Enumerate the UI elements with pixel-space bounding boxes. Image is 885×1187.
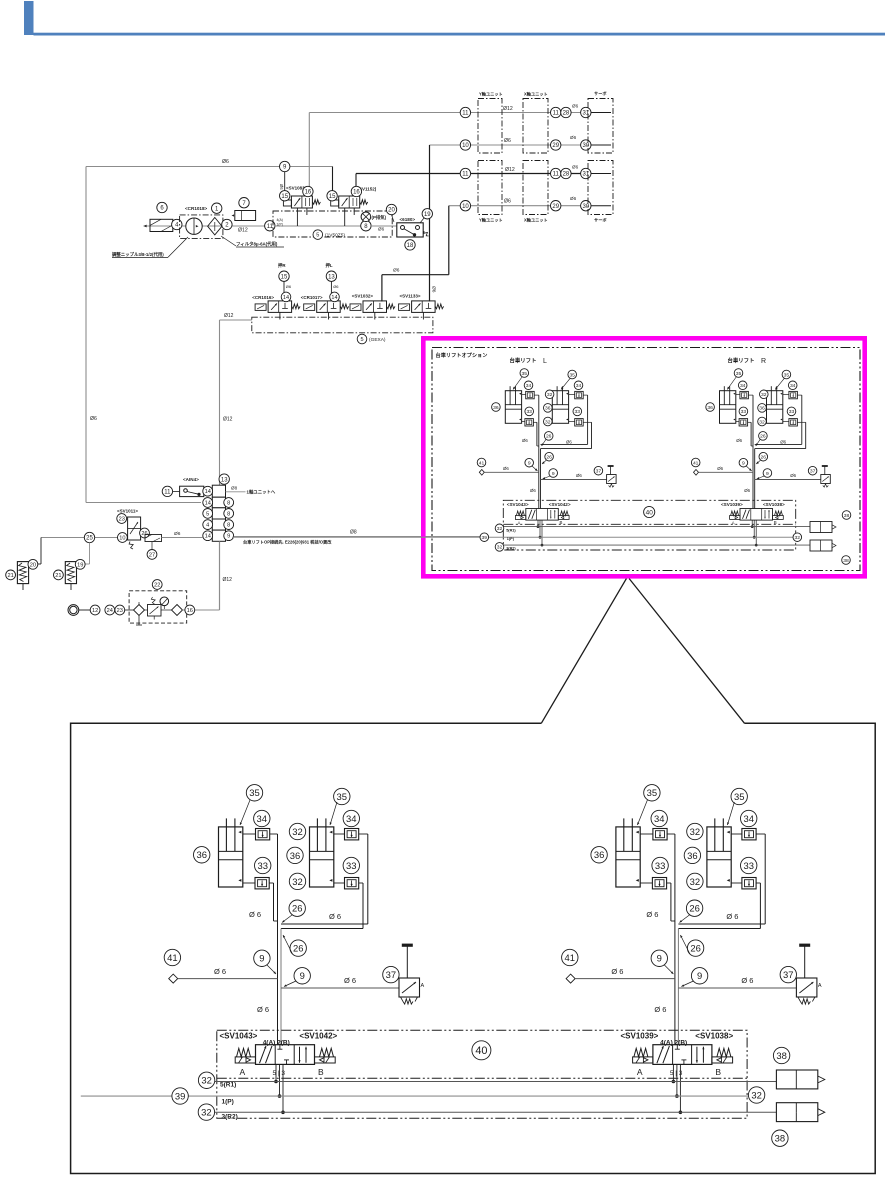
svg-text:5: 5 [360,337,363,343]
svg-text:Ø6: Ø6 [566,440,572,445]
balloon 41 detail [164,949,180,965]
balloon 27 [147,550,157,560]
balloon 32 right detail [748,1087,764,1103]
valve SV1083 [291,196,312,208]
svg-text:33: 33 [743,860,753,871]
wire supply to manifold [256,225,273,227]
wire vertical from line1 to SV1083 [308,113,310,197]
svg-text:32: 32 [497,545,503,551]
svg-text:32: 32 [201,1107,211,1118]
valve SV1083 stubs [296,208,298,226]
valve SV1032 [363,301,387,313]
svg-text:A: A [421,983,425,989]
balloon 15 SV1152 [327,191,337,201]
wire 41 to node detail [575,978,675,980]
svg-text:Ø6: Ø6 [717,466,723,471]
wire 41 to node [484,471,539,473]
wire cylA ports detail [640,833,653,835]
svg-text:13: 13 [221,477,228,483]
muffler SV1011 [145,535,162,542]
balloon 33 B [573,407,582,416]
svg-text:<AIN4>: <AIN4> [183,477,199,482]
balloon 26 junction detail [686,900,702,916]
svg-text:11: 11 [267,224,274,230]
svg-text:35: 35 [569,372,575,378]
svg-text:33: 33 [346,860,356,871]
svg-text:5: 5 [316,233,319,239]
balloon 11 line3 mid [551,168,561,178]
svg-text:41: 41 [693,460,699,466]
balloon 5 manifold [313,230,323,240]
svg-text:33: 33 [526,409,532,415]
filter diamond [208,218,222,235]
svg-text:Ø12: Ø12 [223,577,233,583]
balloon 6 [157,202,167,212]
balloon 14 CR1017 [330,292,340,302]
fitting small B bottom [789,419,798,426]
svg-text:35: 35 [522,371,528,377]
balloon 38 top small [842,511,851,520]
valve CR1016 [268,301,292,313]
svg-text:<SV1032>: <SV1032> [352,293,374,298]
balloon 38 top detail [773,1047,789,1063]
balloon 36 B [544,404,553,413]
svg-text:11: 11 [462,111,469,117]
wire cylA ports detail [243,833,256,835]
svg-text:35: 35 [647,787,657,798]
component 7 regulator [235,211,256,221]
balloon 21 springcyl1 [6,570,16,580]
svg-text:4(A) 2(B): 4(A) 2(B) [660,1040,687,1047]
balloon 20 springcyl1 [28,559,38,569]
svg-text:台車リフトOP接続先. E226(20)931 税技/O賃改: 台車リフトOP接続先. E226(20)931 税技/O賃改 [243,539,332,546]
valve stubs detail [672,1064,674,1081]
plug diamond 41 [694,470,699,476]
svg-text:Ø 6: Ø 6 [329,912,341,921]
valve stubs to GEXA rail [279,312,281,319]
balloon 37 [808,466,817,475]
svg-text:Ø6: Ø6 [530,488,536,493]
svg-text:34: 34 [790,383,796,389]
svg-text:31: 31 [582,111,589,117]
balloon 26 junction [759,432,768,441]
svg-text:Ø6: Ø6 [572,165,579,170]
balloon 36 B [758,404,767,413]
svg-text:34: 34 [526,383,532,389]
balloon 32 right small [793,533,802,542]
svg-text:15: 15 [329,194,336,200]
svg-text:35: 35 [337,791,347,802]
svg-text:26: 26 [293,943,303,954]
fitting B top [742,829,756,840]
balloon 29 line4 [551,201,561,211]
wire cyl B down [797,394,801,396]
rail R2 small [503,544,810,546]
detail box border [71,723,876,1173]
inner dash-dot frame [432,348,860,571]
svg-text:34: 34 [257,813,267,824]
svg-text:1(P): 1(P) [507,537,515,541]
balloon 9b detail [691,968,707,984]
balloon 30 line4 [581,201,591,211]
balloon 9b node [549,469,558,478]
balloon 1 [212,203,222,213]
svg-text:32: 32 [292,826,302,837]
svg-text:14: 14 [283,295,289,301]
svg-text:Ø6: Ø6 [431,286,437,293]
svg-text:38: 38 [775,1133,785,1144]
svg-text:8: 8 [227,511,230,517]
balloon 37 [594,466,603,475]
svg-text:26: 26 [292,903,302,914]
balloon 34 A detail [254,810,270,826]
balloon 13 stack [219,474,229,484]
balloon 22 prep [152,580,162,590]
cylinder A detail [219,827,243,887]
balloon 34 B [574,381,583,390]
muffler 6 [150,219,173,231]
manifold divider dash-dot small [503,523,795,525]
svg-text:39: 39 [175,1090,185,1101]
svg-text:Ø6: Ø6 [570,135,577,140]
svg-text:14: 14 [205,489,211,495]
balloon 36 A detail [591,847,607,863]
svg-text:B: B [318,1067,324,1077]
svg-text:29: 29 [552,143,559,149]
actuator detail 2 [776,1103,817,1122]
fitting A bottom [255,878,269,889]
plug diamond detail [566,974,575,983]
svg-text:34: 34 [743,813,753,824]
svg-text:26: 26 [761,455,767,461]
wires from cyl B [756,833,765,835]
dashed box servo upper [588,99,613,154]
balloon 16 SV1152 [351,186,361,196]
cylinder B detail [310,827,334,887]
wire phi12 tall vertical [219,320,221,610]
balloon 40 detail [472,1041,491,1060]
wire oshiR down [283,281,285,295]
svg-text:押L: 押L [326,262,333,269]
svg-text:34: 34 [654,813,664,824]
svg-text:35: 35 [736,371,742,377]
fitting B bottom [345,878,359,889]
balloon 32 Bb detail [687,873,703,889]
plug double circle [68,605,79,616]
svg-text:36: 36 [545,406,551,412]
balloon 2 [222,219,232,229]
wire supply phi6 top [86,166,333,168]
svg-text:30: 30 [582,204,589,210]
callout filter leader [221,236,236,246]
svg-text:Ø6: Ø6 [576,473,582,478]
wire vertical to SV1152 area [332,167,334,197]
svg-text:Ø6: Ø6 [780,440,786,445]
svg-text:5 | 3: 5 | 3 [273,1070,286,1077]
wire node to 37 detail [678,987,796,989]
wire main supply row [144,225,274,227]
balloon 40 [644,506,655,517]
balloon 9 detail [254,950,270,966]
balloon 15 oshiR [279,271,289,281]
svg-text:<6180>: <6180> [400,217,416,222]
balloon 28 line3 [561,168,571,178]
svg-text:26: 26 [690,943,700,954]
balloon 37 detail [383,966,399,982]
svg-text:35: 35 [734,791,744,802]
svg-text:23: 23 [119,517,125,523]
svg-text:32: 32 [761,392,767,398]
svg-text:9: 9 [697,970,702,981]
svg-text:19: 19 [77,562,83,568]
balloon 26 lower [545,452,554,461]
svg-text:9: 9 [657,953,662,964]
balloon 25 [84,532,94,542]
manifold dash-dot box detail [217,1030,747,1118]
cylinder B detail [707,827,731,887]
filter unit dash-dot box [180,215,223,239]
svg-text:14: 14 [331,295,337,301]
valve 53 detail [653,1045,712,1065]
svg-text:1(P): 1(P) [222,1099,234,1106]
balloon 10 line4 [460,201,470,211]
svg-text:38: 38 [844,513,850,519]
valve CR1017 [317,301,341,313]
svg-text:33: 33 [575,409,581,415]
svg-text:Ø8: Ø8 [350,530,357,536]
svg-text:<SV1038>: <SV1038> [763,502,785,507]
balloon 35 B detail [731,788,747,804]
fitting A top [653,829,667,840]
balloon 31 line1 [581,107,591,117]
svg-text:Ø 6: Ø 6 [741,976,753,985]
svg-text:Ø 6: Ø 6 [257,1005,269,1014]
balloon 21 springcyl2 [54,570,64,580]
svg-text:4: 4 [206,523,209,529]
fitting small B top [789,391,798,398]
spring cylinder 1 [17,562,28,584]
svg-text:Ø6: Ø6 [279,184,284,190]
balloon 10 SV1011 [118,533,128,543]
svg-text:4(A): 4(A) [277,218,283,222]
balloon 19 springcyl2 [75,559,85,569]
svg-text:32: 32 [795,535,801,541]
svg-text:A: A [637,1067,643,1077]
valve stubs small [537,520,539,527]
cylinder small A [505,391,521,424]
wires from cyl B [359,833,368,835]
svg-text:14: 14 [205,534,211,540]
balloon 9b node [763,469,772,478]
balloon 23 SV1011 [117,514,127,524]
stack boxes [212,485,225,497]
balloon 14 CR1016 [281,292,291,302]
svg-text:36: 36 [687,850,697,861]
balloon 32 B detail [289,823,305,839]
svg-text:38: 38 [843,558,849,564]
svg-text:40: 40 [475,1045,487,1057]
flow control small [821,475,831,484]
svg-text:37: 37 [386,969,396,980]
svg-text:34: 34 [576,383,582,389]
balloon 32 R1 [495,524,504,533]
svg-text:9: 9 [766,471,769,477]
svg-text:Ø12: Ø12 [223,417,233,423]
wire through manifold [275,225,366,227]
svg-text:フィルタ8μ-6A(代用): フィルタ8μ-6A(代用) [236,241,278,248]
svg-text:<SV1039>: <SV1039> [721,502,743,507]
balloon 32 Bb [544,417,553,426]
svg-text:34: 34 [346,813,356,824]
svg-text:20: 20 [388,208,395,214]
svg-text:Ø12: Ø12 [505,167,515,173]
balloon 34 A [738,381,747,390]
stack right balloons [226,502,234,504]
balloon 34 B detail [741,810,757,826]
balloon 32 B [760,390,769,399]
wire pair down [674,925,676,1045]
svg-text:Y軸ユニット: Y軸ユニット [479,217,503,224]
svg-text:Ø6: Ø6 [286,284,292,289]
dashed box X-unit lower [523,161,548,215]
wire lower-left line [41,537,128,539]
svg-text:Ø 6: Ø 6 [344,976,356,985]
svg-text:14: 14 [205,501,211,507]
svg-text:11: 11 [164,490,171,496]
actuator detail 1 [776,1070,817,1089]
svg-text:調整ニップル3/8-1/2(代用): 調整ニップル3/8-1/2(代用) [112,251,164,258]
svg-text:1軸ユニットへ: 1軸ユニットへ [247,489,276,496]
dashed box servo lower [588,161,613,215]
rail R2 detail [214,1111,777,1113]
balloon 34 B detail [343,810,359,826]
svg-text:R: R [761,358,766,365]
actuator small 2 [810,540,832,551]
wire stack bottom continues [219,541,221,610]
svg-text:5(R1): 5(R1) [220,1082,236,1089]
svg-text:11: 11 [553,111,560,117]
svg-text:Ø 6: Ø 6 [726,912,738,921]
wires down from fittings [270,833,278,835]
svg-text:26: 26 [546,455,552,461]
wire phi12 into GEXA [220,319,252,321]
balloon 11 supply [265,221,275,231]
wire node to flow control [755,479,821,481]
wire oshiL down [330,281,332,295]
svg-text:4(A) 2(B): 4(A) 2(B) [263,1040,290,1047]
svg-text:<CR1017>: <CR1017> [301,295,323,300]
svg-text:33: 33 [655,860,665,871]
svg-text:16: 16 [353,190,360,196]
plug diamond 41 [479,470,484,476]
svg-text:<SV1039>: <SV1039> [621,1032,659,1041]
wire left tall vertical phi6 [85,167,87,503]
balloon 23 prep [115,605,125,615]
svg-text:36: 36 [196,849,206,860]
svg-text:28: 28 [563,172,570,178]
rail R1 small [503,526,810,528]
balloon 35 A [520,369,529,378]
svg-text:Ø6: Ø6 [90,416,97,422]
wire stack row1 right [226,491,246,493]
balloon 29 line2 [551,140,561,150]
wire cylA ports [522,394,526,396]
svg-text:21: 21 [55,573,61,579]
stack left balloons [204,490,213,492]
balloon 9b detail [294,968,310,984]
wire line3 phi12 [356,173,588,175]
balloon 32 B [545,390,554,399]
svg-text:<SV1042>: <SV1042> [549,502,571,507]
svg-text:32: 32 [201,1075,211,1086]
fitting small B bottom [575,419,584,426]
wire drop to spring cyl 2 [89,543,91,564]
svg-text:Ø6: Ø6 [174,531,181,537]
balloon 33 B [787,407,796,416]
svg-text:37: 37 [783,969,793,980]
svg-text:32: 32 [497,526,503,532]
svg-text:Ø6: Ø6 [744,488,750,493]
svg-text:5(R1): 5(R1) [506,528,516,532]
dashed box X-unit upper [523,99,548,154]
wire prep to 16 [125,609,134,611]
svg-text:X軸ユニット: X軸ユニット [524,217,548,224]
svg-text:13: 13 [328,274,335,280]
wire vertical to SV1032 [381,275,383,302]
svg-text:21: 21 [7,573,13,579]
balloon 11 line1 mid [551,107,561,117]
svg-text:5 | 3: 5 | 3 [670,1070,683,1077]
cylinder A detail [616,827,640,887]
svg-text:3(R2): 3(R2) [222,1114,238,1121]
svg-text:Ø6: Ø6 [393,268,400,274]
wire pair down to supply node [752,449,754,509]
balloon 10 line2 [460,140,470,150]
svg-text:Ø6: Ø6 [333,284,339,289]
balloon 9 supply [280,161,290,171]
wire vertical from line3 to SV1152 [355,174,357,197]
balloon 36 A [706,403,715,412]
balloon 32 Bb [758,417,767,426]
wire vertical x429 down to SV1133 [429,145,431,302]
pressure switch 6180 box [397,223,423,237]
balloon 31 line3 [581,168,591,178]
balloon 33 B detail [343,857,359,873]
balloon 9 detail [651,950,667,966]
cylinder small B [767,391,783,424]
svg-text:12: 12 [92,608,98,614]
svg-text:押R: 押R [278,262,286,269]
svg-text:8: 8 [227,501,230,507]
wire node to 37 detail [281,987,399,989]
fitting B bottom [742,878,756,889]
svg-text:23: 23 [117,608,123,614]
balloon 26 lower detail [687,940,703,956]
balloon 35 B [568,370,577,379]
svg-text:(1V50Z5): (1V50Z5) [325,233,345,239]
svg-text:10: 10 [462,143,469,149]
balloon 36 B detail [287,847,303,863]
gauge box AIN4 [180,486,204,496]
balloon 41 [477,458,486,467]
svg-text:<CR1018>: <CR1018> [185,206,208,211]
svg-text:32: 32 [292,876,302,887]
svg-text:18: 18 [407,243,414,249]
svg-text:A: A [240,1067,246,1077]
fitting small A top [526,391,535,398]
svg-text:9: 9 [742,461,745,467]
balloon 11 line3 [460,168,470,178]
